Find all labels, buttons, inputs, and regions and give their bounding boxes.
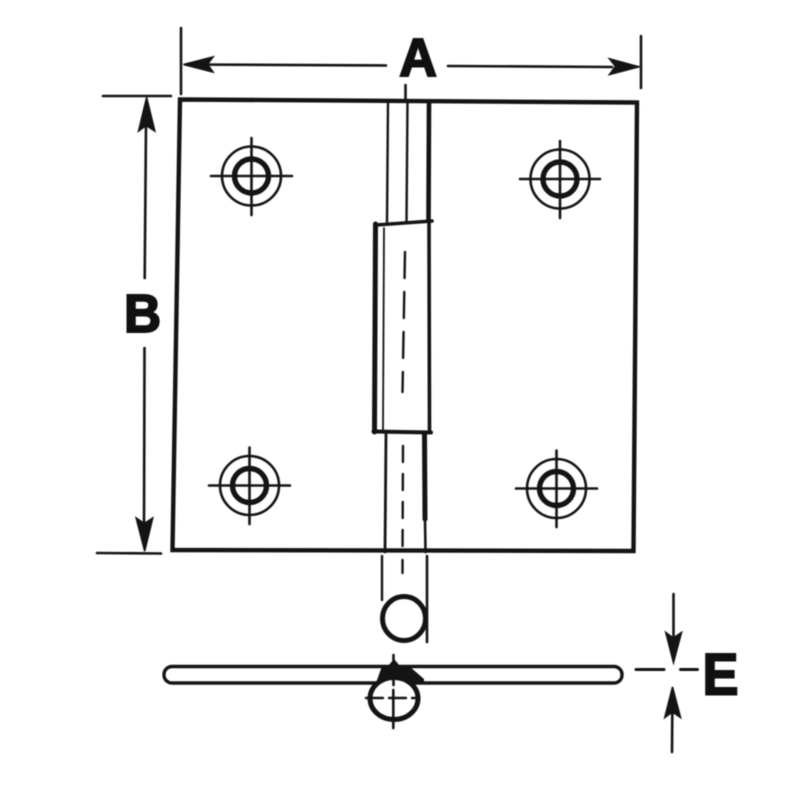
knuckle bottom step line [374,432,432,433]
pin bottom end circle [383,597,426,641]
pin lower tube left line [385,434,386,552]
dimension E down arrowhead [666,633,682,663]
dimension E up arrow stem [671,712,674,752]
screw hole bottom-right crosshair [516,451,597,528]
pin upper tube right line [426,102,431,221]
dimension A right arrowhead [610,59,640,75]
pin extension below plate right line [426,556,429,642]
dimension E down arrow stem [672,594,675,636]
knuckle left outer edge [375,224,376,432]
svg-text:A: A [399,28,437,88]
screw hole top-right outer circle [531,150,590,209]
dimension B down arrowhead [136,518,153,551]
screw hole top-right crosshair [520,141,600,218]
screw hole bottom-left outer circle [220,456,279,515]
svg-text:E: E [703,642,739,707]
dimension B line upper segment [145,124,146,278]
pin upper tube middle line [407,102,408,222]
screw hole bottom-right outer circle [527,459,586,518]
dimension E up arrowhead [665,687,681,718]
pin top tick above plate edge [404,85,407,99]
pin lower tube centre dashed line [401,446,404,553]
screw hole bottom-left crosshair [209,448,290,525]
dimension B line lower segment [143,348,146,524]
side view vertical centerline [392,655,395,728]
pin upper tube left line [387,102,388,222]
knuckle top step line [376,221,432,225]
dimension A right extension line [640,36,643,88]
screw hole top-left outer circle [222,147,281,206]
dimension A line left segment [186,65,386,66]
screw hole top-left inner circle [235,159,269,193]
pin lower tube right line upper bold part [422,434,428,519]
screw hole bottom-left inner circle [233,469,267,503]
side view thin leaf bar [164,667,622,684]
dimension B bottom extension line [97,552,161,555]
hinge leaf plate outline [173,100,638,552]
pin extension below plate left line [381,556,383,600]
screw hole top-left crosshair [211,138,292,215]
side view barrel circle [370,678,418,720]
dimension E dash line left [636,668,664,671]
knuckle left inner line [383,228,384,430]
knuckle inner highlight dashed line [403,252,406,392]
side view horizontal dashed centerline [366,697,418,699]
dimension B top extension line [103,95,171,98]
svg-text:B: B [124,284,161,344]
pin lower tube right line lower thin part [424,519,427,552]
dimension B up arrowhead [139,98,155,132]
screw hole bottom-right inner circle [540,472,574,506]
dimension E dash line right [681,668,698,671]
side view centre dark knuckle mass [376,659,424,683]
dimension A line right segment [448,66,612,67]
knuckle right edge [427,222,431,431]
pin extension centre dash [401,560,403,573]
screw hole top-right inner circle [543,162,577,196]
dimension A left arrowhead [184,57,214,72]
dimension A left extension line [180,28,183,94]
